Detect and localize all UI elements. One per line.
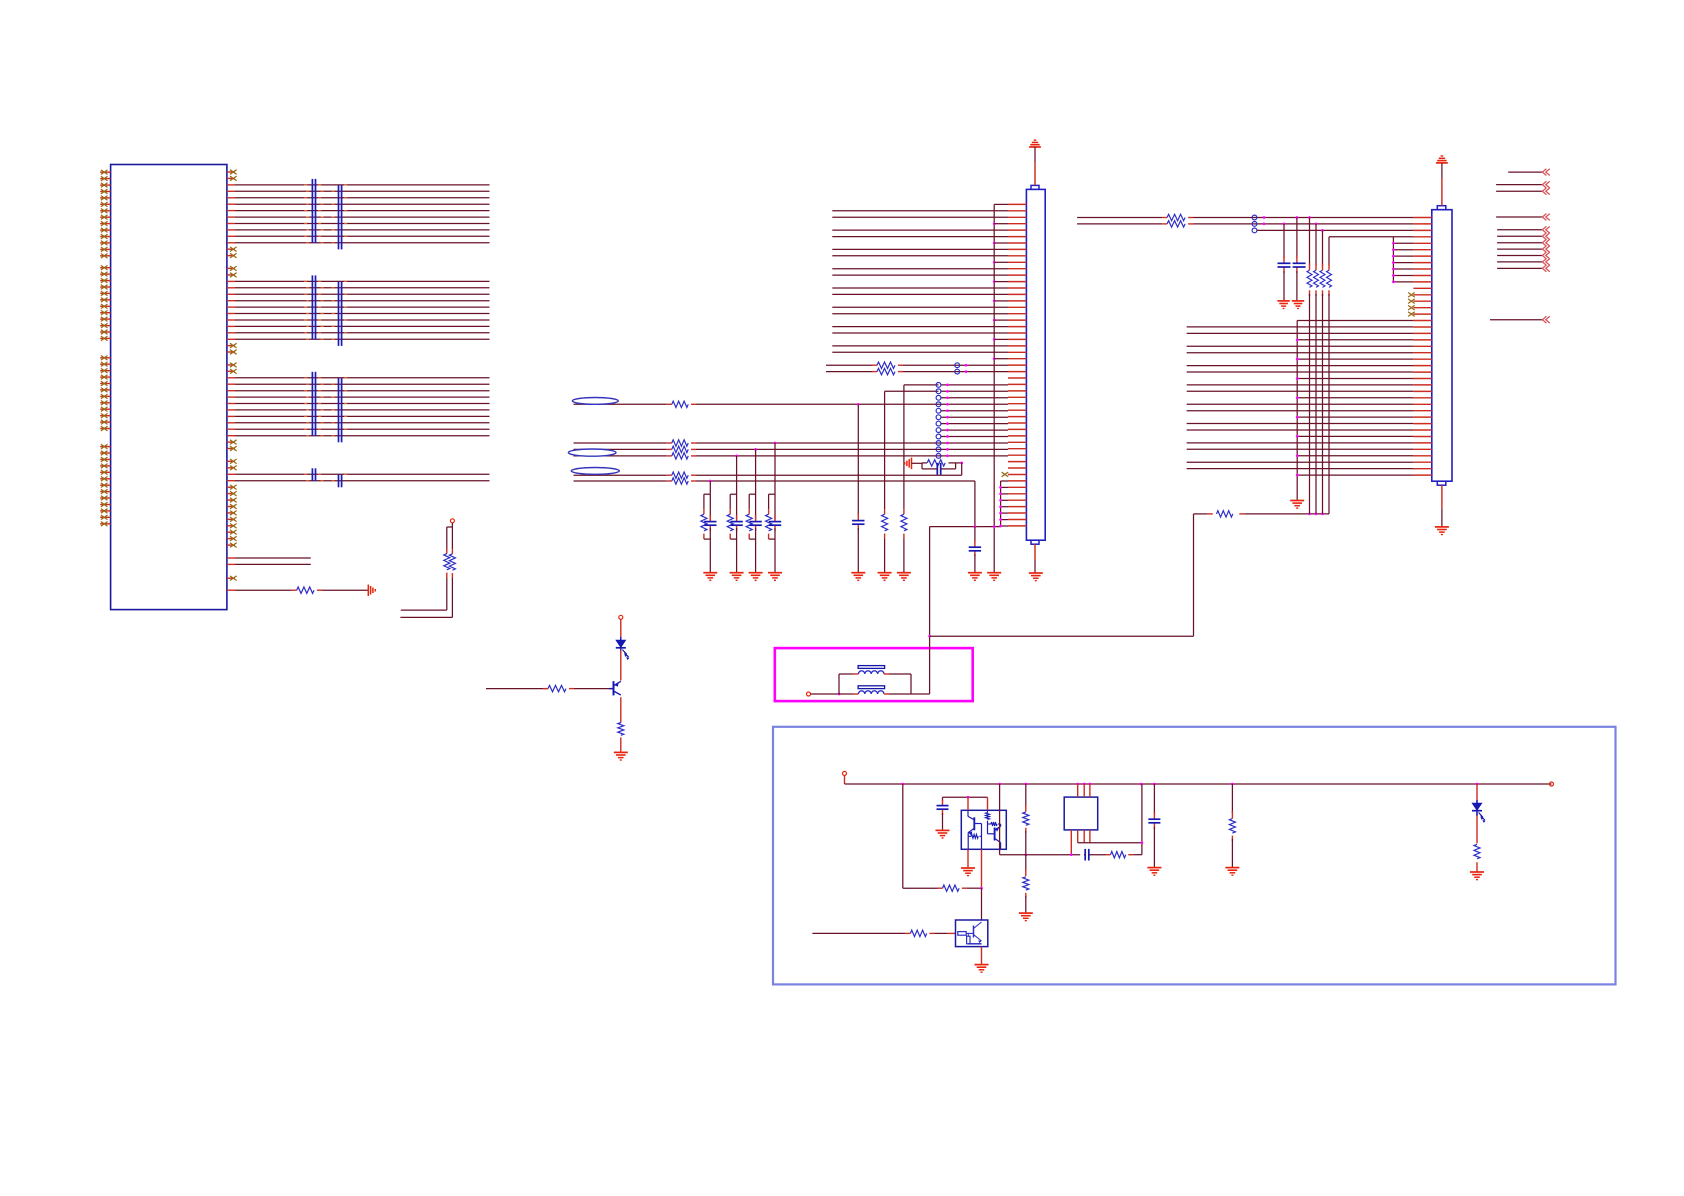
connector J2 pin stubs	[1413, 218, 1431, 476]
resistor R24	[877, 362, 895, 368]
wire P3 to resonator pair	[811, 674, 841, 695]
LED D1	[616, 637, 630, 660]
wire pair to right section with resistors R27/R28	[1077, 218, 1413, 224]
ferrite bead FB1 on channel 1	[572, 398, 618, 405]
pull resistor R29 (vertical)	[1308, 216, 1311, 514]
capacitor of RC branch 3	[749, 522, 761, 526]
resistor R39	[910, 930, 926, 936]
resistor R11 (left of pair)	[444, 554, 450, 570]
resistor R32 zigzag	[1327, 270, 1332, 287]
ground at bottom of ground bus	[987, 573, 1001, 581]
resistor chain R34/R35 to ground	[1024, 784, 1027, 913]
resistor R37 to ground	[1231, 784, 1233, 868]
wire bus group B from U1 (10 wires)	[227, 281, 490, 339]
wire Q1 emitter to R14	[620, 697, 622, 723]
resistor branch R22 feeding connector row 1	[904, 385, 939, 573]
ground below R14	[614, 752, 628, 760]
signal earth comb at end of R10 wire	[368, 585, 375, 597]
terminal post P1	[450, 519, 454, 523]
ground below R37	[1225, 868, 1239, 876]
no-connect X pin on middle connector	[1002, 472, 1009, 477]
ground below D2/R38	[1470, 872, 1484, 880]
resistor R35	[1023, 877, 1029, 890]
capacitor C8	[1278, 263, 1291, 267]
crystal circuit highlight box	[775, 648, 973, 701]
ferrite bead FB3 on channel D	[571, 468, 619, 475]
resistor R14	[618, 723, 624, 736]
earth symbol above J2	[1436, 156, 1448, 206]
link circles on resistor pair rows	[955, 363, 968, 374]
wire channel D (to crystal loop)	[574, 474, 962, 476]
U2 pin stubs	[967, 796, 988, 920]
wire channel 1 (from FB1 through R15 to middle connector)	[574, 403, 1009, 405]
wire bus group C from U1 (10 wires)	[227, 378, 490, 436]
wire bundle to J2 lower pins (16 long wires)	[1187, 327, 1414, 469]
capacitor C7	[969, 547, 981, 551]
resonator Y1 (top)	[839, 666, 911, 674]
wire group to middle connector upper pins (16 long wires)	[832, 211, 1008, 352]
U3 pin stubs	[1070, 784, 1090, 856]
wire from R32 top to hook bus of J2	[1329, 236, 1393, 238]
ground of J2 ground bus	[1290, 501, 1304, 509]
ground below J1	[1029, 544, 1043, 580]
wire resonator output up to bottom rail	[911, 527, 930, 694]
LED D2 with resistor R38 to ground	[1476, 784, 1478, 872]
feedback wire with series capacitor C11 and resistor R36	[1078, 784, 1144, 855]
resistor R12 (right of pair)	[449, 554, 455, 570]
no-connect X pins on J2	[1408, 293, 1415, 317]
resistor R28	[1167, 221, 1185, 227]
ground below U2	[961, 868, 975, 876]
input wire with resistor R39 to transistor Q2	[812, 932, 955, 934]
resistor R21	[882, 514, 888, 531]
wire rail drop to feedback node	[1000, 784, 1081, 855]
wire from U1 with resistor R10 to signal-earth	[227, 589, 368, 591]
resistor network RN3a (vertical pair) on group C	[312, 372, 315, 436]
ferrite bead FB2 on channels B/C	[568, 449, 616, 456]
capacitor C9 to ground	[1296, 216, 1299, 301]
capacitor C12 to ground	[1153, 784, 1155, 868]
regulator U3 box	[1064, 797, 1098, 830]
capacitor C11	[1085, 849, 1089, 861]
capacitor of RC branch 4	[769, 522, 781, 526]
terminal post P5 at rail right	[1550, 782, 1554, 786]
resonator Y2 (bottom)	[839, 686, 911, 694]
terminal post P4 at rail left	[843, 771, 847, 784]
resistor R13	[548, 685, 566, 691]
wire rows of link-circle column to middle connector	[941, 385, 1008, 437]
resistor network RN3b (vertical pair) on group C	[339, 378, 342, 442]
junctions on ground bus	[993, 222, 996, 528]
capacitor C5	[852, 521, 864, 525]
capacitor C7 to ground	[974, 527, 976, 573]
resistor network RN1b (vertical pair) on group A	[339, 185, 342, 249]
junction and wire from crystal to right section	[928, 514, 1193, 638]
resistor R18	[672, 453, 688, 459]
wire rail down-left to base resistor R33	[903, 784, 982, 888]
resistor R34	[1023, 812, 1029, 825]
wire pair with series resistors R24/R25	[826, 365, 1008, 371]
ground of RC branch 1	[703, 573, 717, 581]
resistor of RC branch 3	[746, 514, 752, 531]
wire base input to R13	[486, 688, 613, 690]
resistor R29 zigzag	[1307, 270, 1312, 287]
resistor R22	[901, 514, 907, 531]
ground below R21	[878, 573, 892, 581]
RC snubber branch 1 (R+C parallel to ground)	[704, 480, 712, 573]
ground below C9	[1292, 301, 1304, 309]
capacitor of RC branch 1	[704, 522, 716, 526]
resistor R23 in crystal loop	[927, 460, 945, 466]
dual transistor U2 box	[961, 810, 1006, 849]
connector J1 pin stubs	[1008, 204, 1026, 526]
ground below Q2	[975, 965, 989, 973]
ground bus wire of J2 bundle	[1296, 321, 1414, 501]
capacitor C12	[1148, 819, 1160, 823]
resistor R30 zigzag	[1314, 270, 1319, 287]
wire crystal loop down to channel D	[960, 462, 963, 476]
link circle column (12 circles)	[936, 383, 949, 459]
wire channel A	[574, 442, 1009, 444]
off-page port wires (right side)	[1490, 169, 1550, 323]
ground below J2	[1435, 485, 1449, 534]
wire bus group D from U1 (2 wires)	[227, 474, 490, 480]
resistor network RN2b (vertical pair) on group B	[339, 282, 342, 346]
wire with resistor R26 to right bus	[1194, 513, 1330, 516]
RC snubber branch 2 (R+C parallel to ground)	[730, 455, 738, 573]
ground below C8	[1277, 301, 1289, 309]
link circles right section	[1252, 215, 1265, 233]
resistor R38	[1474, 844, 1480, 859]
wire R14 to ground	[620, 737, 622, 752]
capacitor branch C5 hanging from channel 1	[857, 403, 860, 573]
ground of RC branch 2	[730, 573, 744, 581]
resistor R36	[1111, 852, 1126, 858]
resistor R10	[297, 587, 314, 593]
U2 internal transistors	[968, 810, 1001, 849]
Q2 internal digital transistor	[958, 922, 982, 944]
capacitor C6 in crystal loop	[937, 463, 940, 475]
power rail wire	[845, 783, 1552, 785]
wire channel C	[574, 455, 1009, 457]
rail junctions	[901, 783, 1478, 786]
resistor network RN2a (vertical pair) on group B	[312, 275, 315, 339]
resistor R37	[1229, 819, 1235, 834]
wire bottom rail of middle section	[930, 526, 1001, 528]
terminal post P3 of crystal	[807, 692, 811, 696]
resistor R19	[672, 472, 688, 478]
pull resistor R32 (vertical)	[1328, 237, 1330, 514]
wire P2 to LED	[620, 619, 622, 640]
transistor Q2 box	[956, 920, 988, 947]
resistor network RN1a (vertical pair) on group A	[312, 179, 315, 243]
resistor network RN4b (vertical pair) on group D	[339, 475, 342, 488]
wire L-run from R11	[401, 573, 447, 611]
ground bus wire (vertical)	[993, 204, 995, 572]
wire row 3 from link circle to connector J2	[1257, 229, 1413, 231]
power circuit highlight box	[773, 727, 1616, 985]
junction on bottom rail at capacitor C7	[974, 525, 977, 528]
wire comb to crystal loop	[912, 462, 923, 464]
resistor R27	[1167, 214, 1185, 220]
resistor network RN4a (vertical pair) on group D	[312, 468, 315, 481]
wire bus group A from U1 (10 wires)	[227, 185, 490, 243]
hook bus feeding middle connector lower pins	[999, 481, 1008, 527]
wire stub pair from U1 bottom	[227, 558, 311, 564]
resistor R20	[672, 478, 688, 484]
ground below C12	[1147, 868, 1161, 876]
wire node from P1 to resistor pair	[447, 523, 453, 554]
earth symbol above J1	[1029, 140, 1041, 185]
IC U1 left no-connect pins (4 groups of X pins)	[100, 170, 110, 526]
pull resistor R31 (vertical)	[1321, 229, 1324, 514]
pull resistor R30 (vertical)	[1315, 223, 1318, 514]
resistor of RC branch 2	[727, 514, 733, 531]
wire channel E (down to bottom rail)	[574, 481, 975, 527]
ground-bus stub wires to middle connector	[994, 204, 1008, 358]
crystal shunt loop wiring	[922, 463, 962, 469]
resistor R26	[1217, 511, 1233, 517]
wire Q2 emitter to ground	[981, 947, 983, 965]
ground below R22	[897, 573, 911, 581]
ground below C5	[851, 573, 865, 581]
transistor Q1 (PNP)	[609, 681, 621, 695]
ground of RC branch 4	[768, 573, 782, 581]
connector J1 (middle)	[1026, 185, 1045, 544]
resistor R16	[672, 440, 688, 446]
wire L-run from R12	[400, 573, 452, 617]
capacitor C10	[937, 806, 949, 810]
ground below C10	[936, 830, 950, 838]
ground below R35	[1019, 913, 1033, 921]
wire LED to Q1 collector	[620, 650, 622, 681]
resistor of RC branch 4	[766, 514, 772, 531]
ground below C7	[968, 573, 982, 581]
resistor R25	[877, 368, 895, 374]
IC U1 body	[111, 165, 227, 610]
hook bus feeding J2 upper pins	[1392, 237, 1413, 283]
connector J2 (right)	[1432, 206, 1452, 486]
LED D2	[1472, 800, 1486, 823]
RC snubber branch 4 (R+C parallel to ground)	[769, 442, 777, 573]
capacitor of RC branch 2	[730, 522, 742, 526]
resistor R17	[672, 446, 688, 452]
resistor R33	[943, 885, 960, 891]
IC U1 right X pins	[227, 170, 237, 581]
resistor R15	[672, 401, 688, 407]
capacitor C10 with ground	[943, 797, 988, 830]
resistor R31 zigzag	[1320, 270, 1325, 287]
ground of RC branch 3	[749, 573, 763, 581]
capacitor C9	[1293, 263, 1306, 267]
capacitor C8 to ground	[1283, 223, 1286, 301]
terminal post P2 above LED	[619, 615, 623, 619]
wire channel B	[574, 448, 1009, 450]
signal earth comb of crystal network	[905, 458, 912, 470]
resistor branch R21 feeding connector row 2	[885, 391, 939, 572]
RC snubber branch 3 (R+C parallel to ground)	[749, 448, 757, 573]
resistor of RC branch 1	[701, 514, 707, 531]
